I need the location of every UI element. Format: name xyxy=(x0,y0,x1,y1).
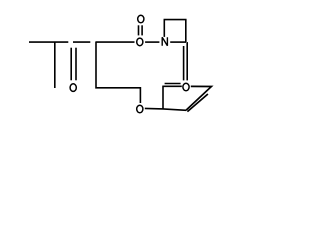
node O3 lower ester oxygen label xyxy=(137,105,143,113)
wire: ring bond P1 to O4 main line xyxy=(163,85,182,87)
wire: C3=O4 long double bond left line xyxy=(183,46,185,80)
node O1 top oxygen label xyxy=(138,15,144,23)
wire: methyl bond down from quaternary C xyxy=(54,42,56,88)
wire: azetidine ring top side xyxy=(164,19,187,21)
wire: chain corner down then right then down into O3 xyxy=(96,42,140,103)
wire: azetidine ring left side xyxy=(163,20,165,37)
wire: carbonyl C=O double bond right line xyxy=(75,48,77,81)
wire: ring bond O4 to V and P3=V main diagonal with arrow miter xyxy=(186,86,211,110)
node O4 ring oxygen label xyxy=(183,83,189,91)
wire: O1=O2 double bond right line xyxy=(141,25,143,35)
wire: P1=O4 double bond upper inner line xyxy=(165,83,181,85)
wire: carbonyl C=O double bond left line xyxy=(70,48,72,81)
wire: bond CH3 to quaternary C xyxy=(29,41,68,43)
wire: bond O2 to N xyxy=(145,41,159,43)
wire: azetidine ring right side xyxy=(185,20,187,42)
wire: ring bond P1 to P2 vertical xyxy=(162,86,164,110)
node N azetidine nitrogen label xyxy=(162,37,167,45)
wire: bond C to carbonyl C xyxy=(73,41,90,43)
wire: bond O3 to P2 to P3 bottom, slightly sloped xyxy=(145,108,186,110)
node O5 carbonyl oxygen label xyxy=(70,84,76,92)
node O2 chain oxygen label xyxy=(137,38,143,46)
wire: P3=V double bond inner diagonal xyxy=(187,94,208,112)
wire: O1=O2 double bond left line xyxy=(138,25,140,35)
wire: C3=O4 long double bond right line xyxy=(186,42,188,80)
wire: bond carbonyl C to chain C, into ester O2 xyxy=(95,41,134,43)
wire: azetidine ring bottom side from N to C3 xyxy=(170,41,186,43)
